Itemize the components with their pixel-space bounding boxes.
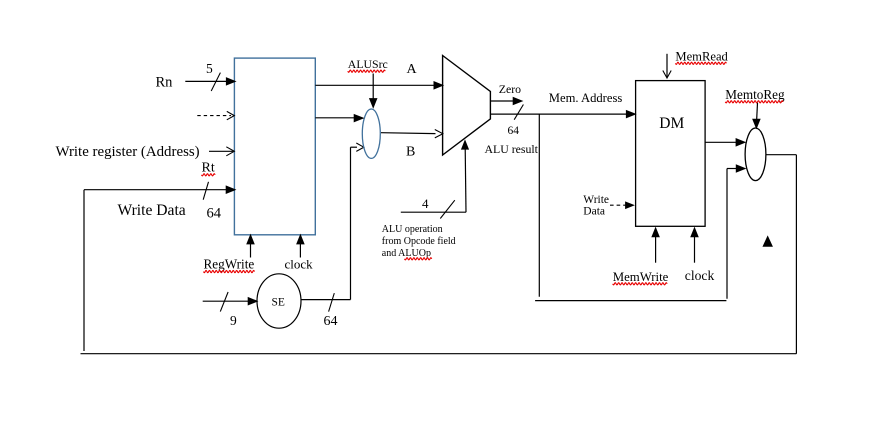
wire clock control (DM) <box>691 228 698 263</box>
svg-text:Write: Write <box>583 194 609 206</box>
wire read data 1 (A) <box>315 82 442 89</box>
label MemtoReg <box>725 87 785 103</box>
wire write-back loop <box>81 155 797 354</box>
svg-text:9: 9 <box>230 313 237 328</box>
label Write Data (DM) <box>583 194 609 218</box>
svg-text:4: 4 <box>422 196 429 211</box>
ALU <box>443 56 491 156</box>
svg-text:clock: clock <box>685 268 715 283</box>
wire MemWrite control <box>652 228 659 263</box>
svg-text:MemRead: MemRead <box>675 49 728 63</box>
mux ALUSrc <box>362 109 380 158</box>
wire ALUSrc control <box>370 74 377 108</box>
wire DM to mux <box>705 139 745 146</box>
svg-text:ALUSrc: ALUSrc <box>348 57 388 71</box>
wire SE input <box>203 292 257 312</box>
wire MemRead control <box>663 54 671 78</box>
svg-text:64: 64 <box>207 205 222 221</box>
svg-text:ALU result: ALU result <box>485 142 539 156</box>
svg-text:B: B <box>406 144 415 159</box>
svg-text:64: 64 <box>324 314 338 329</box>
sign-extend SE <box>257 274 301 328</box>
svg-text:Write register (Address): Write register (Address) <box>56 144 200 160</box>
label Rt <box>202 161 216 176</box>
label ALU operation note <box>382 224 456 260</box>
wire write register input <box>209 147 234 156</box>
wire clock control <box>297 235 304 257</box>
register file <box>234 58 315 235</box>
svg-text:MemtoReg: MemtoReg <box>725 87 785 102</box>
svg-text:MemWrite: MemWrite <box>613 270 669 284</box>
wire RegWrite control <box>247 235 254 257</box>
wire SE output <box>301 293 351 312</box>
mux MemtoReg <box>745 128 766 181</box>
wire DM write data <box>610 202 633 208</box>
wire ALU operation control <box>401 141 468 219</box>
svg-text:ALU operation: ALU operation <box>382 224 443 235</box>
svg-text:clock: clock <box>285 257 314 272</box>
wire Zero output <box>491 98 522 105</box>
label RegWrite <box>204 257 255 273</box>
label MemWrite <box>613 270 669 285</box>
svg-text:RegWrite: RegWrite <box>204 257 255 272</box>
svg-text:DM: DM <box>659 115 684 132</box>
wire result feedback loop <box>535 114 745 301</box>
svg-text:SE: SE <box>272 297 285 309</box>
svg-text:Zero: Zero <box>499 82 521 96</box>
wire dashed input <box>197 111 234 119</box>
wire ALU result to DM <box>490 105 635 120</box>
label ALUSrc <box>348 57 388 72</box>
data memory DM <box>636 81 706 227</box>
wire Rn input <box>185 73 235 91</box>
svg-text:5: 5 <box>206 61 213 76</box>
label MemRead <box>675 49 728 64</box>
wire SE to mux <box>351 143 364 300</box>
svg-text:Data: Data <box>583 206 605 218</box>
svg-text:Mem. Address: Mem. Address <box>549 91 623 105</box>
triangle marker <box>763 237 772 246</box>
svg-text:Rt: Rt <box>202 161 215 176</box>
svg-text:64: 64 <box>508 125 520 137</box>
wire MemtoReg control <box>753 103 760 128</box>
wire read data 2 <box>315 115 363 122</box>
svg-text:A: A <box>407 62 418 77</box>
wire Write Data <box>84 182 235 351</box>
wire mux to ALU (B) <box>381 130 443 138</box>
svg-text:Write Data: Write Data <box>118 202 186 219</box>
svg-text:from Opcode field: from Opcode field <box>382 236 456 247</box>
svg-text:Rn: Rn <box>156 74 174 90</box>
